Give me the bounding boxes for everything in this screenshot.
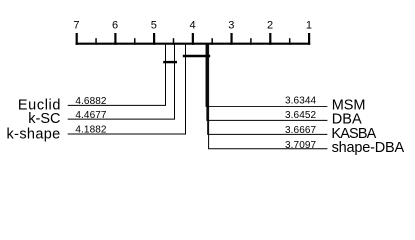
svg-text:shape-DBA: shape-DBA <box>332 140 405 156</box>
svg-text:7: 7 <box>73 20 79 32</box>
clique bar B (Euclid..k-SC) <box>163 61 177 63</box>
svg-text:1: 1 <box>306 20 312 32</box>
major tick 1 <box>308 33 310 45</box>
minor tick 2.5 <box>250 38 252 45</box>
svg-text:3.6667: 3.6667 <box>285 125 317 136</box>
major tick 6 <box>114 33 116 45</box>
shape-DBA connector line <box>209 44 328 149</box>
minor tick 3.5 <box>211 38 213 45</box>
minor tick 6.5 <box>95 38 97 45</box>
Euclid connector line <box>68 44 166 105</box>
minor tick 5.5 <box>134 38 136 45</box>
svg-text:3: 3 <box>228 20 234 32</box>
major tick 4 <box>192 33 194 45</box>
DBA connector line <box>207 44 328 120</box>
svg-text:4.4677: 4.4677 <box>75 110 107 121</box>
major tick 3 <box>230 33 232 45</box>
svg-text:4.6882: 4.6882 <box>75 96 107 107</box>
svg-text:k-SC: k-SC <box>28 111 60 127</box>
minor tick 4.5 <box>173 38 175 45</box>
MSM connector line <box>206 44 327 106</box>
minor tick 1.5 <box>289 38 291 45</box>
axis main line <box>76 43 311 45</box>
svg-text:5: 5 <box>151 20 157 32</box>
svg-text:3.6452: 3.6452 <box>285 110 317 121</box>
k-shape connector line <box>68 44 186 134</box>
clique bar A (k-shape..shape-DBA) <box>183 55 210 57</box>
svg-text:4.1882: 4.1882 <box>75 125 107 136</box>
k-SC connector line <box>68 44 175 119</box>
svg-text:4: 4 <box>190 20 196 32</box>
KASBA connector line <box>208 44 328 134</box>
svg-text:3.6344: 3.6344 <box>285 96 317 107</box>
major tick 2 <box>269 33 271 45</box>
svg-text:k-shape: k-shape <box>7 127 61 143</box>
svg-text:3.7097: 3.7097 <box>285 140 317 151</box>
svg-text:2: 2 <box>267 20 273 32</box>
major tick 5 <box>153 33 155 45</box>
svg-text:6: 6 <box>112 20 118 32</box>
major tick 7 <box>76 33 78 45</box>
